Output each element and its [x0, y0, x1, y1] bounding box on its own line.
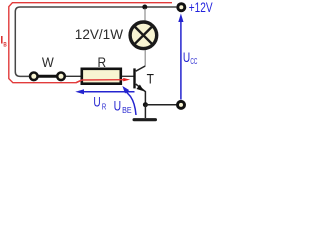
svg-text:T: T — [147, 70, 155, 86]
svg-text:BE: BE — [122, 106, 132, 115]
svg-text:CC: CC — [190, 57, 197, 66]
svg-text:U: U — [114, 99, 122, 114]
svg-text:R: R — [102, 103, 107, 112]
svg-text:W: W — [42, 55, 54, 70]
svg-text:R: R — [98, 55, 107, 70]
svg-text:U: U — [183, 50, 190, 65]
svg-text:U: U — [93, 95, 100, 110]
svg-text:B: B — [3, 41, 7, 48]
svg-text:12V/1W: 12V/1W — [75, 26, 124, 42]
svg-text:+12V: +12V — [189, 0, 213, 15]
